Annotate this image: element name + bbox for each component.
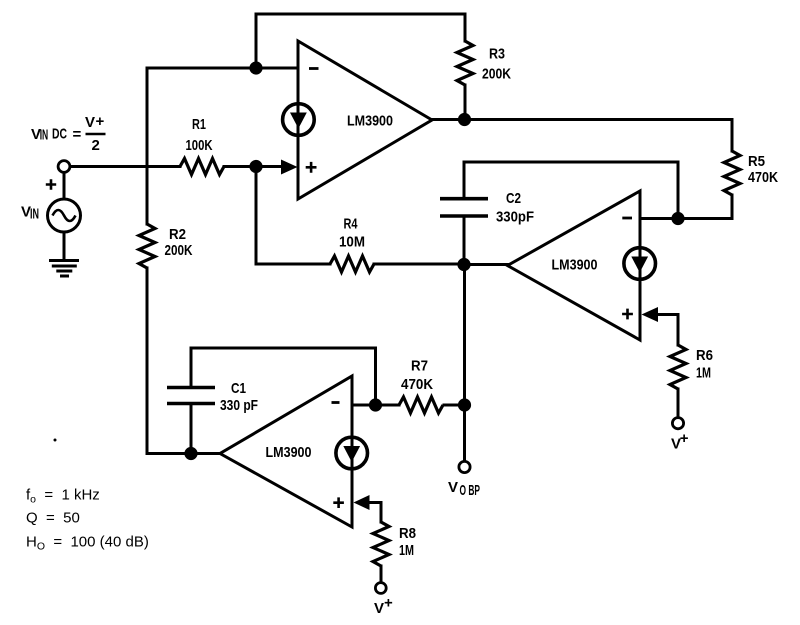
wire center column A2 output down to VOBP terminal — [463, 264, 466, 461]
svg-text:V: V — [448, 479, 458, 496]
wire A1 plus node down to R4 — [256, 167, 330, 265]
junction dot R7 VOBP node — [458, 398, 471, 411]
svg-text:+: + — [680, 430, 689, 447]
svg-text:2: 2 — [92, 137, 100, 154]
svg-text:HO = 100 (40 dB): HO = 100 (40 dB) — [26, 534, 149, 553]
svg-text:100K: 100K — [186, 137, 213, 154]
op-amp U1 LM3900 triangle — [298, 41, 432, 199]
op-amp U2 LM3900 triangle — [508, 191, 641, 340]
wire R8 bottom to V+ terminal — [380, 566, 383, 583]
label VIN DC formula — [31, 113, 106, 154]
arrow into A2 plus input — [642, 307, 659, 322]
svg-text:470K: 470K — [401, 376, 433, 393]
wire A2 plus input to R6 — [658, 315, 678, 346]
U3 minus pin label — [332, 401, 340, 404]
U1 plus pin label — [306, 162, 317, 173]
svg-text:IN: IN — [30, 206, 39, 223]
svg-text:R6: R6 — [696, 347, 713, 364]
terminal VOBP — [459, 461, 470, 472]
U2 minus pin label — [622, 217, 632, 220]
svg-text:V: V — [85, 114, 95, 131]
op-amp U3 LM3900 triangle — [220, 376, 352, 527]
junction dot A1 output node — [458, 113, 471, 126]
wire A3 plus input to R8 — [369, 503, 381, 523]
wire left feedback vertical lower and A3 output horizontal — [147, 268, 221, 454]
wire R5 bottom to A2 minus input — [640, 195, 732, 219]
svg-text:V: V — [374, 600, 384, 617]
junction dot C1 bottom A3 output node — [184, 447, 197, 460]
svg-text:330pF: 330pF — [496, 209, 534, 226]
wire source to ground — [63, 232, 66, 259]
wire top feedback from R3 top to A1 minus node — [256, 14, 465, 66]
svg-text:470K: 470K — [748, 169, 778, 186]
current source symbol in U2 — [624, 248, 656, 280]
ground — [49, 261, 79, 277]
svg-text:+: + — [96, 113, 105, 130]
U1 minus pin label — [309, 67, 319, 70]
resistor R3 — [457, 41, 473, 85]
resistor R3 leads — [464, 14, 467, 41]
svg-text:DC: DC — [52, 126, 67, 143]
svg-text:C1: C1 — [231, 380, 246, 397]
svg-text:330 pF: 330 pF — [220, 397, 258, 414]
resistor R5 — [724, 151, 740, 195]
wire VIN terminal to source — [63, 173, 66, 200]
wire A2 output tip — [465, 263, 508, 266]
plus polarity label at VIN source — [46, 179, 56, 189]
terminal V+ below R6 — [672, 418, 683, 429]
resistor R7 — [399, 397, 443, 413]
U3 plus pin label — [333, 497, 344, 508]
resistor R6 — [670, 345, 686, 389]
terminal V+ below R8 — [375, 583, 386, 594]
svg-text:R3: R3 — [489, 46, 505, 63]
svg-text:IN: IN — [40, 127, 49, 144]
junction dot A1 minus node — [249, 61, 262, 74]
wire A3 feedback top — [191, 348, 376, 405]
svg-text:R4: R4 — [344, 216, 358, 233]
wire R4 to A2 output node — [374, 263, 465, 266]
svg-text:R7: R7 — [411, 358, 428, 375]
wire R1 to A1 plus input — [224, 165, 282, 168]
svg-text:LM3900: LM3900 — [266, 444, 312, 461]
resistor R8 — [373, 522, 389, 566]
wire VIN input to R1 — [70, 165, 180, 168]
svg-text:R8: R8 — [399, 525, 416, 542]
wire A3 minus input to R7 — [352, 404, 399, 407]
wire left feedback vertical upper (A1 minus node to R2) — [146, 68, 149, 224]
svg-text:+: + — [384, 595, 393, 612]
wire R7 to VOBP column — [444, 404, 465, 407]
arrow into A3 plus input — [354, 495, 370, 510]
svg-text:R2: R2 — [169, 226, 186, 243]
wire A1 minus input — [147, 67, 298, 70]
capacitor C1 bottom connector — [190, 404, 193, 454]
svg-text:10M: 10M — [339, 234, 365, 251]
junction dot A3 minus node — [369, 398, 382, 411]
svg-text:200K: 200K — [482, 66, 511, 83]
U2 plus pin label — [622, 309, 633, 320]
svg-text:200K: 200K — [165, 242, 193, 259]
terminal VIN — [58, 161, 70, 173]
svg-text:LM3900: LM3900 — [552, 257, 598, 274]
stray ink speck — [54, 439, 57, 442]
svg-text:=: = — [73, 126, 82, 143]
current source symbol in U3 — [336, 437, 368, 469]
svg-text:Q = 50: Q = 50 — [26, 510, 80, 527]
junction dot A2 minus node — [671, 212, 684, 225]
svg-text:R1: R1 — [192, 116, 206, 133]
svg-text:LM3900: LM3900 — [347, 113, 393, 130]
wire A1 output to R5 top — [432, 120, 732, 152]
arrow into A1 plus input — [281, 160, 298, 175]
resistor R4 — [330, 256, 374, 272]
capacitor C1 top connector — [190, 348, 193, 386]
svg-text:1M: 1M — [399, 542, 414, 559]
resistor R2 — [139, 224, 155, 268]
capacitor C2 — [440, 199, 488, 216]
svg-text:O BP: O BP — [460, 482, 481, 499]
current source symbol in U1 — [283, 104, 315, 136]
resistor R1 — [180, 159, 224, 175]
junction dot A2 output node — [457, 258, 470, 271]
svg-text:C2: C2 — [506, 190, 521, 207]
capacitor C1 — [167, 388, 215, 404]
svg-text:1M: 1M — [696, 365, 711, 382]
wire R6 bottom to V+ terminal — [677, 389, 680, 418]
junction dot A1 plus node — [249, 160, 262, 173]
wire C2 top to A2 minus node — [464, 162, 678, 219]
source VIN sine symbol — [48, 199, 81, 232]
wire C2 bottom to A2 output node — [463, 216, 466, 264]
svg-text:R5: R5 — [748, 153, 765, 170]
svg-text:fo = 1 kHz: fo = 1 kHz — [26, 487, 100, 506]
